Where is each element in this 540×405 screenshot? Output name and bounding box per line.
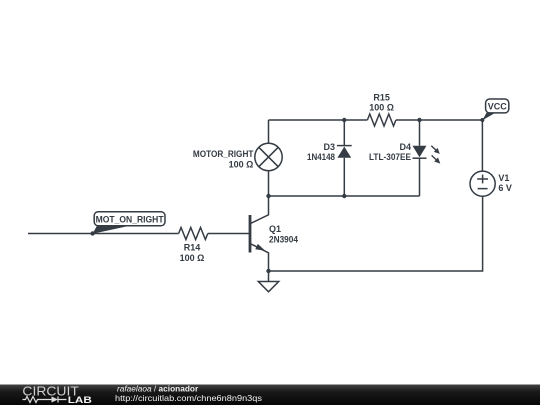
lamp MOTOR_RIGHT wire top: [268, 120, 270, 143]
led D4 cathode bar: [413, 157, 427, 159]
diode D3 wire bottom: [343, 158, 345, 196]
flag VCC pointer: [482, 113, 495, 120]
node D4 top dot: [417, 118, 421, 122]
wire input from left to R14: [28, 233, 179, 235]
svg-text:LAB: LAB: [68, 395, 92, 405]
footer bar: [0, 385, 540, 405]
node emitter junction dot: [266, 269, 270, 273]
svg-text:MOTOR_RIGHT: MOTOR_RIGHT: [193, 149, 254, 159]
diode D3 cathode bar: [337, 145, 352, 147]
svg-text:V1: V1: [498, 173, 509, 183]
resistor R14: [179, 228, 208, 240]
led D4 wire top: [419, 120, 421, 146]
ground: [258, 282, 278, 292]
wire collector node to D4 bottom: [269, 195, 420, 197]
svg-text:R15: R15: [373, 92, 390, 102]
source V1: [470, 171, 495, 196]
flag MOT_ON_RIGHT box: [94, 212, 165, 226]
svg-text:http://circuitlab.com/chne6n8n: http://circuitlab.com/chne6n8n9n3qs: [115, 393, 262, 403]
wire top rail left segment: [269, 119, 368, 121]
transistor Q1 collector diagonal: [250, 196, 269, 224]
svg-text:6 V: 6 V: [498, 183, 512, 193]
svg-text:LTL-307EE: LTL-307EE: [369, 152, 411, 162]
wire V1 bottom to bottom rail: [269, 196, 483, 271]
diode D3 triangle: [337, 147, 351, 158]
node MOT_ON_RIGHT junction dot: [90, 231, 94, 235]
svg-text:100 Ω: 100 Ω: [180, 253, 205, 263]
resistor R15: [367, 114, 396, 126]
transistor Q1 emitter arrow: [255, 244, 265, 251]
logo diode bar: [58, 397, 67, 403]
svg-text:rafaelaoa / acionador: rafaelaoa / acionador: [117, 383, 199, 393]
led D4 emission arrow 1: [431, 146, 440, 154]
svg-text:1N4148: 1N4148: [307, 152, 335, 162]
svg-text:R14: R14: [184, 243, 201, 253]
led D4 triangle: [413, 146, 427, 157]
wire VCC to V1 top: [481, 120, 483, 171]
led D4 wire bottom: [419, 158, 421, 196]
transistor Q1 emitter diagonal: [250, 244, 269, 272]
flag MOT_ON_RIGHT pointer: [93, 226, 129, 234]
transistor Q1 base bar: [249, 215, 252, 253]
node D3 top dot: [342, 118, 346, 122]
logo diode symbol: [52, 397, 59, 403]
wire emitter to ground: [268, 271, 270, 282]
node D3 bottom dot: [342, 194, 346, 198]
led D4 emission arrow 2: [432, 155, 441, 163]
svg-text:100 Ω: 100 Ω: [369, 103, 394, 113]
svg-text:MOT_ON_RIGHT: MOT_ON_RIGHT: [96, 214, 164, 224]
svg-text:100 Ω: 100 Ω: [229, 159, 254, 169]
wire R14 to Q1 base: [208, 233, 249, 235]
lamp MOTOR_RIGHT: [255, 143, 282, 170]
node collector junction dot: [266, 194, 270, 198]
svg-text:D3: D3: [323, 142, 335, 152]
node VCC corner dot: [480, 118, 484, 122]
svg-text:Q1: Q1: [269, 224, 281, 234]
diode D3 wire top: [343, 120, 345, 146]
logo schematic squiggle: [23, 397, 56, 403]
lamp MOTOR_RIGHT wire bottom: [268, 171, 270, 196]
svg-text:2N3904: 2N3904: [269, 234, 298, 244]
wire top rail right segment: [396, 119, 483, 121]
svg-text:VCC: VCC: [488, 102, 508, 112]
flag VCC box: [486, 99, 509, 113]
svg-text:D4: D4: [399, 142, 411, 152]
